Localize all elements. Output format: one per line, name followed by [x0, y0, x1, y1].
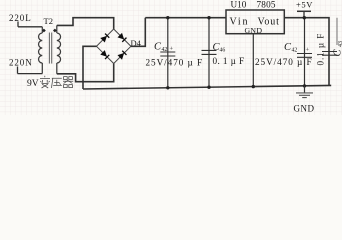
secondary bottom lead	[56, 63, 58, 74]
wire +V top rail to U10 Vin	[145, 17, 226, 19]
transformer polarity dot secondary	[53, 29, 57, 33]
wire 220N to transformer primary bottom	[18, 73, 43, 75]
core	[49, 33, 51, 64]
capacitor C46 vertical wire	[208, 18, 210, 88]
primary bottom lead	[41, 63, 43, 74]
diode bottom-right (bottom vertex to right vertex)	[117, 51, 126, 60]
bridge rectifier D4 diamond	[97, 29, 131, 64]
svg-text:C: C	[333, 49, 342, 57]
svg-text:0.1 µ F: 0.1 µ F	[316, 33, 326, 66]
junction C46 top	[207, 16, 210, 19]
svg-text:0. 1 µ F: 0. 1 µ F	[213, 56, 245, 66]
svg-text:GND: GND	[245, 26, 263, 35]
primary winding	[39, 33, 43, 63]
capacitor C42a vertical wire	[167, 18, 169, 88]
svg-text:9V: 9V	[27, 79, 39, 89]
svg-text:43: 43	[338, 41, 342, 47]
transformer T2	[39, 25, 61, 73]
wire bridge left vertex down to ground rail	[83, 46, 97, 89]
wire secondary top to bridge (stepped)	[57, 18, 114, 29]
svg-text:+5V: +5V	[296, 0, 313, 10]
capacitor C46 plates	[202, 50, 217, 54]
svg-text:GND: GND	[294, 104, 315, 114]
junction C42a bottom	[166, 86, 169, 89]
wire U10 Vout to +5V and C43	[284, 18, 329, 86]
junction +5V / C42b top	[303, 16, 306, 19]
capacitor C42a plates	[160, 52, 175, 56]
svg-text:U10: U10	[231, 0, 247, 10]
char qi	[63, 77, 73, 88]
primary top lead	[41, 27, 43, 33]
svg-text:42: 42	[162, 47, 168, 53]
junction U10 GND bottom	[252, 85, 255, 88]
wire secondary bottom to bridge bottom (stepped)	[57, 64, 114, 82]
regulator U10 box	[226, 10, 284, 34]
wire 220L terminal tick	[17, 22, 19, 27]
svg-text:+: +	[170, 46, 174, 53]
ground rail	[83, 85, 331, 89]
wire U10 GND pin to ground rail	[252, 34, 254, 87]
svg-text:220L: 220L	[9, 13, 32, 23]
svg-text:7805: 7805	[257, 0, 276, 10]
svg-text:+: +	[306, 47, 310, 54]
diode top-right (top vertex to right vertex)	[117, 33, 126, 42]
char ya	[52, 78, 62, 88]
svg-text:46: 46	[220, 48, 226, 54]
char bian	[40, 76, 50, 88]
secondary top lead	[56, 25, 58, 33]
+5V terminal stem	[303, 11, 305, 17]
diode top-left (left vertex to top vertex)	[100, 33, 109, 42]
wire 220L to transformer primary top	[18, 26, 42, 28]
diode bottom-left (left vertex to bottom vertex)	[100, 50, 109, 59]
svg-text:T2: T2	[44, 16, 53, 26]
wire bridge right vertex up to +V rail	[131, 18, 145, 47]
junction C42b bottom	[303, 84, 306, 87]
capacitor C43 plates	[322, 52, 337, 56]
ground symbol bars	[296, 93, 313, 98]
transformer polarity dot primary	[42, 29, 46, 33]
secondary winding	[57, 33, 61, 63]
svg-text:42: 42	[292, 48, 298, 54]
wire stub at right edge	[336, 18, 338, 45]
svg-text:25V/470 µ F: 25V/470 µ F	[146, 58, 204, 68]
capacitor C42b vertical wire	[304, 18, 306, 86]
wire 220N terminal tick	[17, 67, 19, 74]
svg-text:25V/470 µ F: 25V/470 µ F	[255, 57, 313, 67]
junction C46 bottom	[207, 86, 210, 89]
svg-text:220N: 220N	[9, 58, 33, 68]
+5V terminal bar	[297, 10, 311, 12]
ground symbol stem	[304, 86, 306, 93]
capacitor C42b plates	[297, 54, 312, 58]
junction C42a top	[166, 16, 169, 19]
